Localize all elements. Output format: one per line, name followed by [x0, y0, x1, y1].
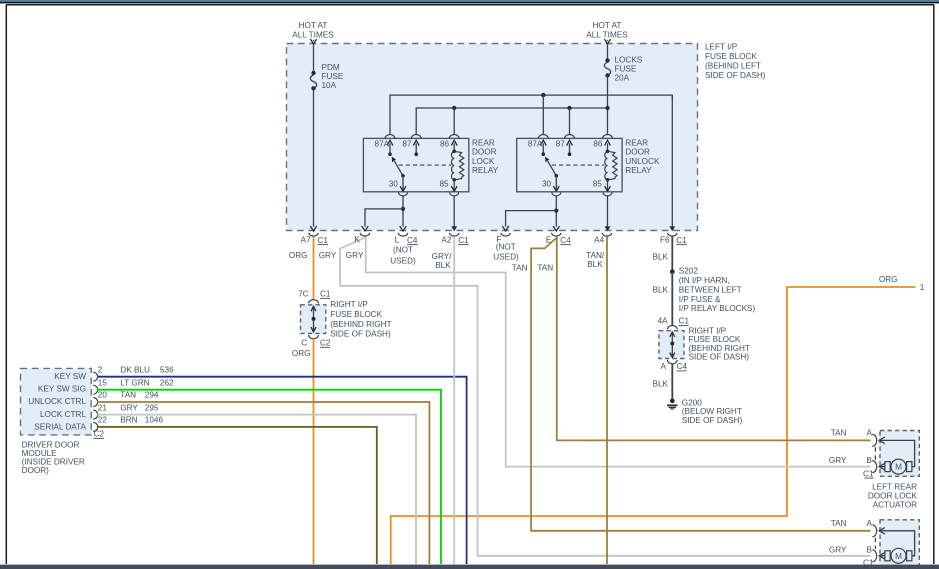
- svg-text:UNLOCK: UNLOCK: [625, 157, 660, 166]
- wire relay2 30 output to F and E: [503, 196, 560, 232]
- svg-text:ACTUATOR: ACTUATOR: [873, 501, 917, 510]
- svg-text:LOCKS: LOCKS: [615, 56, 643, 65]
- connector pin A2 C1 (GRY/BLK): [441, 233, 469, 245]
- svg-text:SIDE OF DASH): SIDE OF DASH): [682, 416, 743, 425]
- svg-text:SIDE OF DASH): SIDE OF DASH): [705, 71, 766, 80]
- svg-text:SIDE OF DASH): SIDE OF DASH): [330, 330, 391, 339]
- actuator M1 LEFT REAR DOOR LOCK ACTUATOR: [829, 428, 919, 509]
- svg-text:ALL TIMES: ALL TIMES: [586, 31, 628, 40]
- svg-text:BLK: BLK: [653, 285, 669, 294]
- svg-text:BETWEEN LEFT: BETWEEN LEFT: [679, 285, 742, 294]
- connector pin A7 C1 (ORG): [301, 233, 329, 245]
- fuse PDM FUSE 10A: [310, 63, 344, 91]
- svg-text:20A: 20A: [615, 73, 630, 82]
- module pin 21 LOCK CTRL / wire GRY 295: [93, 403, 416, 564]
- svg-text:LEFT I/P: LEFT I/P: [705, 43, 738, 52]
- svg-text:SERIAL DATA: SERIAL DATA: [34, 423, 86, 432]
- svg-text:GRY: GRY: [120, 403, 138, 412]
- label (NOT USED) under F: [493, 242, 519, 261]
- actuator M2 rear door lock actuator (partial): [829, 519, 919, 569]
- svg-text:(BEHIND RIGHT: (BEHIND RIGHT: [330, 320, 391, 329]
- svg-text:GRY: GRY: [319, 251, 337, 260]
- svg-text:DOOR): DOOR): [22, 466, 50, 475]
- svg-text:21: 21: [98, 403, 108, 412]
- module pin 22 SERIAL DATA / wire BRN 1046: [93, 416, 377, 564]
- driver door module (inside driver door): [21, 368, 92, 474]
- module pin 15 KEY SW SIG / wire LT GRN 262: [93, 378, 441, 564]
- svg-text:TAN: TAN: [831, 428, 847, 437]
- svg-text:S202: S202: [679, 267, 699, 276]
- svg-text:86: 86: [593, 139, 603, 148]
- svg-text:FUSE BLOCK: FUSE BLOCK: [689, 335, 741, 344]
- svg-text:C1: C1: [458, 236, 469, 245]
- wire bus B (LOCKS feed to 87/86): [416, 108, 607, 135]
- svg-text:GRY: GRY: [829, 456, 847, 465]
- splice S202: [670, 267, 756, 314]
- svg-text:(NOT: (NOT: [496, 242, 516, 251]
- svg-text:A: A: [867, 519, 873, 528]
- svg-text:15: 15: [98, 378, 108, 387]
- connector pin A C4: [661, 360, 688, 371]
- svg-text:(BEHIND LEFT: (BEHIND LEFT: [705, 61, 761, 70]
- svg-text:I/P RELAY BLOCKS): I/P RELAY BLOCKS): [679, 304, 756, 313]
- wire bus A (87A feed to ground drop): [390, 95, 672, 135]
- svg-text:M: M: [895, 463, 902, 472]
- connector pin 7C C1: [298, 289, 331, 303]
- svg-text:F6: F6: [660, 236, 670, 245]
- wire PDM fuse to A7: [313, 88, 315, 226]
- svg-text:ORG: ORG: [292, 349, 311, 358]
- junction bus A / relay2 87A: [541, 93, 545, 97]
- svg-text:A4: A4: [594, 236, 604, 245]
- svg-text:UNLOCK CTRL: UNLOCK CTRL: [28, 397, 86, 406]
- svg-text:HOT AT: HOT AT: [593, 21, 622, 30]
- label (NOT USED) under L: [390, 246, 416, 266]
- svg-text:LOCK: LOCK: [472, 157, 495, 166]
- svg-text:TAN: TAN: [831, 519, 847, 528]
- bottom window bar: [0, 565, 939, 569]
- svg-text:RELAY: RELAY: [472, 166, 499, 175]
- svg-text:PDM: PDM: [322, 63, 340, 72]
- svg-text:DOOR: DOOR: [472, 148, 497, 157]
- connector pin F6 C1 (BLK): [660, 233, 687, 245]
- connector pin F (not used): [496, 233, 510, 244]
- svg-text:C4: C4: [560, 236, 571, 245]
- svg-text:L: L: [395, 236, 400, 245]
- wire relay2 85 output to A4: [605, 196, 611, 232]
- wire ORG fuse block to bottom: [313, 339, 315, 564]
- node HOT AT ALL TIMES (right feed): [586, 21, 628, 40]
- fuse LOCKS FUSE 20A: [604, 56, 642, 83]
- connector pin A4 (TAN/BLK): [594, 233, 612, 245]
- wire ORG from A7 to right I/P fuse block: [313, 237, 315, 300]
- svg-text:TAN: TAN: [537, 263, 553, 272]
- svg-text:A7: A7: [301, 236, 311, 245]
- wire relay1 85 output to A2: [451, 196, 457, 232]
- module pin 2 KEY SW / wire DK BLU 536: [93, 365, 466, 564]
- svg-text:FUSE: FUSE: [322, 72, 344, 81]
- svg-text:C4: C4: [407, 236, 418, 245]
- svg-text:BLK: BLK: [653, 252, 669, 261]
- svg-text:DK BLU: DK BLU: [120, 365, 150, 374]
- svg-text:M: M: [895, 552, 902, 561]
- wire GRY from K to actuator 2 pin B: [340, 238, 871, 556]
- connector pin E C4 (TAN): [546, 233, 571, 245]
- wire GRY/BLK from A2 to bottom: [453, 237, 455, 564]
- wire BLK S202 to 4A: [671, 272, 673, 326]
- svg-text:TAN: TAN: [120, 391, 136, 400]
- svg-text:BRN: BRN: [120, 416, 137, 425]
- svg-text:30: 30: [542, 180, 552, 189]
- svg-text:LEFT REAR: LEFT REAR: [872, 482, 917, 491]
- left I/P fuse block (dashed box): [287, 44, 698, 231]
- svg-text:I/P FUSE &: I/P FUSE &: [679, 295, 721, 304]
- svg-text:FUSE BLOCK: FUSE BLOCK: [705, 52, 757, 61]
- wire LOCKS fuse to relay2 86 pin: [607, 76, 609, 135]
- svg-text:ORG: ORG: [879, 275, 898, 284]
- svg-text:C1: C1: [863, 469, 874, 478]
- svg-text:B: B: [867, 545, 873, 554]
- right I/P fuse block (upper): [301, 300, 392, 338]
- connector pin L C4 (not used): [395, 233, 418, 245]
- svg-text:87A: 87A: [528, 139, 543, 148]
- svg-text:USED): USED): [390, 257, 416, 266]
- wire ORG off-page circuit 1: [391, 275, 925, 564]
- relay K2 REAR DOOR UNLOCK RELAY: [517, 135, 660, 196]
- svg-text:GRY: GRY: [829, 545, 847, 554]
- svg-text:TAN: TAN: [512, 263, 528, 272]
- svg-text:1: 1: [920, 283, 925, 292]
- svg-text:B: B: [867, 456, 873, 465]
- svg-text:87A: 87A: [375, 139, 390, 148]
- svg-text:LOCK CTRL: LOCK CTRL: [40, 410, 86, 419]
- svg-text:294: 294: [145, 391, 159, 400]
- wire PDM fuse feed: [313, 44, 315, 72]
- wire bus A down to F6: [669, 95, 675, 231]
- svg-text:(IN I/P HARN,: (IN I/P HARN,: [679, 276, 730, 285]
- wire relay1 30 output to K and L: [362, 196, 406, 232]
- svg-text:4A: 4A: [658, 317, 669, 326]
- svg-text:C: C: [301, 339, 307, 348]
- svg-text:A: A: [661, 362, 667, 371]
- svg-text:G200: G200: [682, 398, 702, 407]
- svg-text:GRY/: GRY/: [432, 252, 453, 261]
- svg-text:BLK: BLK: [435, 261, 451, 270]
- svg-text:GRY: GRY: [346, 251, 364, 260]
- svg-text:DOOR: DOOR: [625, 148, 650, 157]
- wire BLK F6 to S202: [671, 237, 673, 272]
- connector pin 4A C1: [658, 317, 690, 330]
- wire TAN/BLK from A4 to bottom: [606, 237, 608, 564]
- svg-text:K: K: [354, 235, 360, 244]
- wire BLK to G200: [671, 364, 673, 400]
- svg-text:(BELOW RIGHT: (BELOW RIGHT: [682, 407, 742, 416]
- svg-text:HOT AT: HOT AT: [299, 21, 328, 30]
- svg-text:C1: C1: [318, 236, 329, 245]
- connector pin C C2: [301, 335, 331, 348]
- svg-text:87: 87: [402, 139, 412, 148]
- svg-text:RIGHT I/P: RIGHT I/P: [330, 300, 368, 309]
- svg-text:BLK: BLK: [653, 379, 669, 388]
- svg-text:20: 20: [98, 391, 108, 400]
- svg-text:295: 295: [145, 403, 159, 412]
- svg-text:C1: C1: [320, 289, 331, 298]
- svg-text:(NOT: (NOT: [393, 246, 413, 255]
- svg-text:BLK: BLK: [587, 260, 603, 269]
- node HOT AT ALL TIMES (left feed): [292, 21, 334, 40]
- svg-text:2: 2: [98, 365, 103, 374]
- svg-text:KEY SW: KEY SW: [54, 372, 86, 381]
- svg-text:(BEHIND RIGHT: (BEHIND RIGHT: [689, 344, 750, 353]
- svg-text:85: 85: [593, 180, 603, 189]
- svg-text:87: 87: [556, 139, 566, 148]
- svg-text:KEY SW SIG: KEY SW SIG: [38, 385, 86, 394]
- svg-text:85: 85: [439, 180, 449, 189]
- svg-text:SIDE OF DASH): SIDE OF DASH): [689, 353, 750, 362]
- svg-text:REAR: REAR: [625, 139, 648, 148]
- svg-text:C1: C1: [676, 236, 687, 245]
- wire GRY from K to actuator 1 pin B: [366, 237, 871, 467]
- wire TAN from E to actuator 2 pin A: [531, 238, 870, 531]
- connector C2 (driver door module): [94, 429, 105, 438]
- right I/P fuse block (lower): [659, 326, 750, 361]
- junction bus B / relay2 87: [567, 106, 571, 110]
- svg-text:C1: C1: [679, 317, 690, 326]
- svg-text:A2: A2: [441, 236, 451, 245]
- label GRY/BLK under A2: [432, 252, 453, 270]
- svg-text:FUSE: FUSE: [615, 65, 637, 74]
- svg-text:ALL TIMES: ALL TIMES: [292, 31, 334, 40]
- svg-text:10A: 10A: [322, 81, 337, 90]
- svg-text:C2: C2: [94, 429, 105, 438]
- wire LOCKS fuse feed: [607, 44, 609, 59]
- svg-text:E: E: [546, 236, 552, 245]
- svg-text:TAN/: TAN/: [586, 251, 605, 260]
- svg-text:DOOR LOCK: DOOR LOCK: [868, 492, 918, 501]
- svg-text:A: A: [867, 428, 873, 437]
- svg-text:ORG: ORG: [289, 251, 308, 260]
- junction LOCKS wire at bus B: [605, 106, 609, 110]
- svg-text:RIGHT I/P: RIGHT I/P: [689, 326, 727, 335]
- wire TAN from E to actuator 1 pin A: [557, 237, 871, 441]
- svg-text:86: 86: [440, 139, 450, 148]
- label TAN/BLK under A4: [586, 251, 605, 269]
- svg-text:536: 536: [160, 365, 174, 374]
- svg-text:C4: C4: [677, 362, 688, 371]
- svg-text:USED): USED): [493, 252, 519, 261]
- svg-text:FUSE BLOCK: FUSE BLOCK: [330, 310, 382, 319]
- svg-text:RELAY: RELAY: [625, 166, 652, 175]
- relay K1 REAR DOOR LOCK RELAY: [363, 135, 498, 196]
- svg-text:C2: C2: [320, 338, 331, 347]
- svg-text:1046: 1046: [145, 416, 164, 425]
- svg-text:REAR: REAR: [472, 139, 495, 148]
- svg-text:262: 262: [160, 378, 174, 387]
- module pin 20 UNLOCK CTRL / wire TAN 294: [93, 391, 429, 564]
- junction bus B / relay1 86: [452, 106, 456, 110]
- connector pin K (GRY): [354, 233, 369, 244]
- ground G200: [667, 398, 743, 425]
- svg-text:LT GRN: LT GRN: [120, 378, 149, 387]
- svg-text:30: 30: [389, 180, 399, 189]
- svg-text:22: 22: [98, 416, 108, 425]
- svg-text:7C: 7C: [298, 289, 309, 298]
